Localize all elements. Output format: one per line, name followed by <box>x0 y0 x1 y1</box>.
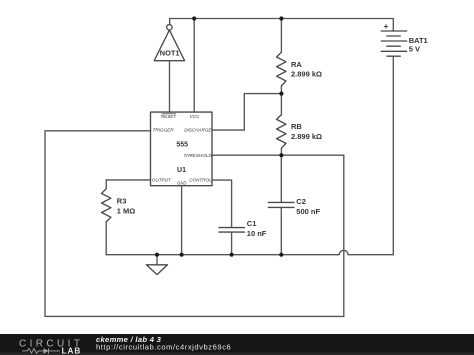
wire control <box>212 180 232 227</box>
wire NOT1 output up to top rail <box>169 19 171 25</box>
wire ground symbol stem <box>156 255 158 265</box>
wire trigger left <box>45 130 151 132</box>
resistor RB <box>277 115 286 149</box>
wire right vertical threshold-trigger <box>343 155 345 316</box>
svg-text:GND: GND <box>177 181 186 186</box>
node junction RA/RB discharge <box>279 92 283 96</box>
svg-text:2.899 kΩ: 2.899 kΩ <box>291 70 322 79</box>
wire C2 bottom stem <box>280 208 282 255</box>
ground <box>146 265 167 275</box>
wire threshold <box>212 154 344 156</box>
svg-text:1 MΩ: 1 MΩ <box>117 207 136 216</box>
svg-text:THRESHOLD: THRESHOLD <box>183 153 212 158</box>
wire C1 bottom stem <box>231 233 233 255</box>
svg-text:DISCHARGE: DISCHARGE <box>184 128 212 133</box>
wire VCC pin down from top rail <box>193 19 195 113</box>
wire RESET from NOT1 base to IC <box>169 61 171 112</box>
wire discharge <box>212 94 281 131</box>
node junction top RA <box>279 16 283 20</box>
svg-text:OUTPUT: OUTPUT <box>152 177 172 182</box>
wire R3 bottom stem <box>105 222 107 255</box>
svg-text:+: + <box>384 22 389 31</box>
svg-text:C1: C1 <box>247 219 257 228</box>
svg-text:RB: RB <box>291 122 302 131</box>
node junction GND pin <box>180 253 184 257</box>
op-amp NOT1 inverter triangle <box>154 30 184 61</box>
wire ground rail with hop <box>106 250 393 254</box>
node junction RB threshold <box>279 153 283 157</box>
wire battery positive lead <box>392 19 394 32</box>
wire R3 top stem <box>105 180 107 189</box>
wire RA bottom stem <box>280 86 282 94</box>
svg-text:C2: C2 <box>296 197 306 206</box>
svg-text:5 V: 5 V <box>409 44 420 53</box>
wire GND pin down <box>181 186 183 255</box>
node junction C2 <box>279 253 283 257</box>
wire battery negative lead <box>392 56 394 255</box>
resistor RA <box>277 52 286 86</box>
wire RB top stem <box>280 94 282 115</box>
wire RB bottom stem <box>280 148 282 155</box>
pin RESET overline <box>162 113 177 115</box>
capacitor C2 <box>268 202 294 207</box>
wire top rail VCC <box>170 18 394 20</box>
op-amp U1 555 IC box <box>151 112 213 186</box>
resistor R3 <box>102 189 111 222</box>
svg-text:500 nF: 500 nF <box>296 207 320 216</box>
svg-text:R3: R3 <box>117 197 127 206</box>
capacitor C1 <box>219 228 245 233</box>
svg-text:NOT1: NOT1 <box>160 49 180 58</box>
svg-text:RA: RA <box>291 60 302 69</box>
svg-text:http://circuitlab.com/c4rxjdvb: http://circuitlab.com/c4rxjdvbz69c6 <box>96 343 231 352</box>
svg-text:555: 555 <box>176 142 188 149</box>
node junction top VCC pin <box>192 16 196 20</box>
wire left vertical <box>44 131 46 317</box>
wire RA top stem <box>280 19 282 53</box>
svg-text:RESET: RESET <box>161 114 178 119</box>
node junction ground symbol <box>155 253 159 257</box>
svg-text:2.899 kΩ: 2.899 kΩ <box>291 132 322 141</box>
footer bar <box>0 334 474 355</box>
svg-text:CONTROL: CONTROL <box>189 177 212 182</box>
node junction C1 <box>230 253 234 257</box>
wire bottom feedback <box>45 315 344 317</box>
logo resistor-diode motif <box>22 348 60 354</box>
wire C2 top stem <box>280 155 282 202</box>
NOT1 bubble <box>167 25 172 30</box>
svg-text:VCC: VCC <box>190 114 200 119</box>
svg-text:U1: U1 <box>177 167 186 174</box>
svg-text:LAB: LAB <box>62 347 82 355</box>
svg-text:10 nF: 10 nF <box>247 229 267 238</box>
wire output left <box>106 179 150 181</box>
battery BAT1 <box>381 31 406 56</box>
svg-text:TRIGGER: TRIGGER <box>153 128 175 133</box>
